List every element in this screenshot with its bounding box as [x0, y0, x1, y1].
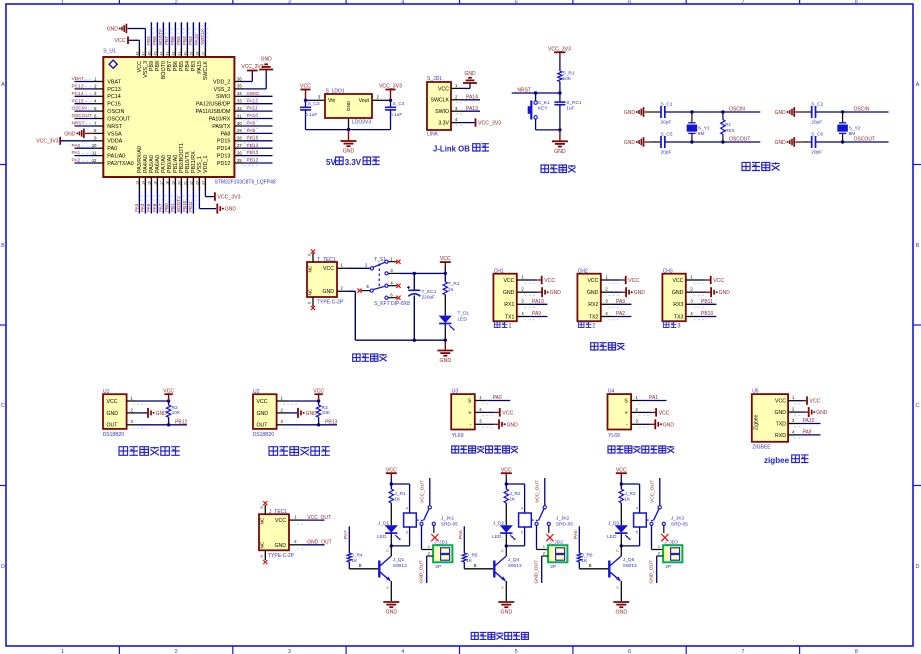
- svg-text:4: 4: [521, 506, 524, 511]
- svg-text:e: e: [387, 585, 390, 590]
- ground GND of power circuit: [437, 340, 453, 364]
- svg-text:PB8: PB8: [152, 36, 157, 45]
- wire net OSCIN to U1 pin 5: [72, 106, 94, 112]
- power GND for S_C5: [624, 137, 661, 147]
- wire net PA0 to U1 pin 10: [72, 143, 94, 149]
- svg-text:37: 37: [201, 52, 205, 56]
- svg-text:47: 47: [141, 52, 145, 56]
- svg-text:43: 43: [165, 52, 169, 56]
- power VCC at U5 pin1: [794, 396, 821, 405]
- wire net SWIO from U1 pin 34: [244, 91, 273, 99]
- MCU U1 STM32F103C8T6 body: [103, 49, 276, 186]
- relay J_JK1 switch lever: [416, 509, 458, 528]
- wire net PA2 to U1 pin 12: [72, 158, 94, 164]
- connector S_JD1 J-Link: [427, 76, 451, 138]
- power GND at U1 pin 23: [199, 190, 236, 214]
- svg-text:VCC_3V3: VCC_3V3: [217, 195, 240, 201]
- svg-text:2: 2: [175, 649, 178, 654]
- svg-text:2: 2: [341, 286, 344, 291]
- label serial port 1: [494, 322, 512, 330]
- svg-text:3.3V: 3.3V: [345, 158, 362, 167]
- svg-text:J_JD1: J_JD1: [434, 539, 448, 545]
- power GND at U1 pin2: [137, 408, 167, 418]
- svg-text:13: 13: [135, 181, 139, 185]
- svg-text:20: 20: [177, 181, 181, 185]
- wire S_C6 to crystal node: [816, 141, 889, 143]
- svg-text:PA10: PA10: [247, 113, 259, 119]
- ground GND of LDO circuit: [341, 130, 357, 155]
- svg-text:S_LDO1: S_LDO1: [326, 89, 345, 95]
- svg-text:10: 10: [92, 143, 97, 148]
- ground GND of relay cell J_JD3: [613, 602, 629, 616]
- S_JD1 pin 3: [451, 106, 462, 111]
- svg-text:J_R2: J_R2: [509, 491, 521, 497]
- U1 bottom pin 19: [171, 177, 175, 190]
- svg-text:PA0: PA0: [72, 143, 81, 149]
- svg-text:J_D1: J_D1: [378, 520, 390, 526]
- svg-text:1: 1: [479, 395, 482, 400]
- svg-text:YL69: YL69: [608, 433, 620, 439]
- wire net PB7 from U1 pin 43: [164, 22, 172, 47]
- svg-text:A: A: [916, 82, 920, 88]
- svg-text:33: 33: [237, 99, 242, 104]
- power GND for S_C6: [775, 137, 812, 147]
- svg-text:GND: GND: [107, 27, 119, 33]
- CH1 pin 4: [517, 311, 529, 317]
- U1 pin 1: [127, 395, 137, 401]
- svg-text:T_D1: T_D1: [458, 311, 470, 317]
- svg-text:RXD: RXD: [775, 433, 786, 439]
- svg-text:J_R3: J_R3: [624, 491, 636, 497]
- U1 right pin 32: [234, 106, 243, 111]
- svg-text:36: 36: [237, 76, 242, 81]
- svg-text:14: 14: [141, 181, 145, 185]
- svg-text:GND: GND: [225, 207, 237, 213]
- power VCC of relay cell J_JD3: [616, 467, 627, 484]
- svg-text:220uF: 220uF: [422, 295, 436, 301]
- svg-text:2: 2: [636, 407, 639, 412]
- crystal S_Y1 8M: [687, 110, 710, 143]
- U1 bottom pin 20: [177, 177, 181, 190]
- U1 bottom pin 15: [147, 177, 151, 190]
- svg-text:PA11: PA11: [247, 106, 258, 112]
- svg-text:GND: GND: [634, 290, 646, 296]
- wire net PA12 from U1 pin 33: [244, 98, 273, 106]
- U1 right pin 36: [234, 76, 243, 81]
- svg-text:38: 38: [195, 52, 199, 56]
- J_TEC1 top no-connect pin: [260, 501, 268, 514]
- wire net PA10 from U1 pin 31: [244, 113, 273, 121]
- svg-text:U3: U3: [452, 389, 459, 395]
- svg-text:PB11: PB11: [188, 201, 193, 212]
- svg-text:SWCLK: SWCLK: [203, 61, 209, 81]
- svg-text:SWIO: SWIO: [435, 109, 449, 115]
- svg-text:7: 7: [94, 121, 97, 126]
- switch T_S1 no-connect stub pin6: [388, 296, 401, 300]
- svg-text:1: 1: [94, 76, 97, 81]
- svg-text:OSCIN: OSCIN: [72, 106, 88, 112]
- svg-text:46: 46: [147, 52, 151, 56]
- U4 pin 1: [631, 395, 643, 401]
- svg-text:PA0: PA0: [493, 395, 502, 401]
- capacitor T_EC1 220uF polarized: [407, 273, 437, 340]
- svg-text:VCC: VCC: [587, 278, 598, 284]
- U1 top pin 42: [171, 47, 175, 57]
- svg-text:2: 2: [94, 84, 97, 89]
- svg-text:T_EC1: T_EC1: [422, 289, 437, 295]
- U5 pin 4: [788, 429, 799, 435]
- svg-text:3: 3: [288, 649, 291, 654]
- U3 pin 3: [475, 419, 487, 425]
- svg-text:PA7: PA7: [343, 530, 349, 539]
- wire net PA10 from U5 TXD: [794, 418, 821, 427]
- svg-text:29: 29: [237, 128, 242, 133]
- wire VCC_OUT to relay common J_JK3: [657, 478, 662, 510]
- svg-text:2: 2: [690, 287, 693, 292]
- svg-text:1: 1: [131, 395, 134, 400]
- svg-text:GND: GND: [257, 411, 269, 417]
- wire net BOOT0 from U1 pin 44: [158, 22, 166, 47]
- net label VCC_OUT (vertical) of J_JD3: [650, 480, 656, 503]
- svg-text:T_TEC1: T_TEC1: [317, 257, 336, 263]
- svg-text:S: S: [468, 398, 472, 404]
- wire net PC13 to U1 pin 2: [72, 84, 94, 90]
- wire S_JD1 pin1 to GND: [462, 83, 470, 88]
- J_TEC1 bottom no-connect pin: [260, 550, 268, 564]
- svg-text:C: C: [501, 548, 504, 553]
- wire net PB12 from U1 pin 25: [244, 158, 273, 166]
- wire S_C2 to crystal node: [816, 111, 889, 113]
- svg-text:20pF: 20pF: [811, 120, 822, 126]
- wire net PC15 to U1 pin 4: [72, 98, 94, 104]
- wire net OSCOUT to U1 pin 6: [72, 113, 94, 119]
- wire net PB10 from U1 pin 21: [182, 190, 190, 214]
- U2 pin 2: [277, 407, 287, 413]
- svg-text:2: 2: [658, 552, 660, 556]
- svg-text:PA1: PA1: [649, 395, 658, 401]
- capacitor S_C1 20pF: [661, 102, 673, 126]
- svg-text:KEY: KEY: [538, 106, 548, 112]
- switch T_S1 no-connect stub pin4: [388, 284, 401, 288]
- svg-text:10K: 10K: [322, 410, 331, 416]
- svg-text:LED: LED: [458, 317, 468, 323]
- svg-text:4: 4: [401, 649, 404, 654]
- power GND at U3 pin3: [482, 419, 518, 429]
- svg-text:NC: NC: [260, 541, 265, 548]
- wire net PA1 from U4 S pin: [639, 395, 667, 404]
- svg-text:PB7: PB7: [164, 36, 169, 45]
- wire VCC node to relay coil J_JK3: [620, 482, 640, 513]
- svg-text:PA9: PA9: [247, 121, 256, 127]
- svg-text:S_U1: S_U1: [103, 49, 116, 55]
- svg-text:2: 2: [294, 539, 297, 544]
- relay coil J_JK2 SRD-05: [519, 513, 532, 527]
- svg-text:PB9: PB9: [146, 36, 151, 45]
- net label GND_OUT (vertical) of J_JD1: [418, 560, 424, 584]
- svg-text:OUT: OUT: [257, 423, 269, 429]
- svg-text:1: 1: [658, 545, 660, 549]
- svg-text:PB5: PB5: [176, 36, 181, 45]
- wire net PB9 from U1 pin 46: [146, 22, 154, 47]
- U2 pin 1: [277, 395, 287, 401]
- svg-text:VCC: VCC: [440, 256, 451, 262]
- net label PA7 (relay input): [343, 530, 349, 539]
- wire LED to coil bottom and transistor J_Q4: [501, 527, 525, 556]
- net label OSCOUT (S_Y2): [854, 137, 875, 143]
- svg-text:GND: GND: [343, 149, 355, 155]
- svg-text:PD13: PD13: [217, 154, 231, 160]
- power VCC_3V3 at U1 pin 36: [241, 64, 263, 82]
- U1 bottom pin 22: [189, 177, 193, 190]
- svg-text:PA3: PA3: [616, 299, 625, 305]
- svg-text:S_JD1: S_JD1: [427, 76, 442, 82]
- svg-text:SRD-05: SRD-05: [556, 522, 573, 528]
- connector CH3 serial port: [662, 268, 685, 321]
- wire net PA1 to U1 pin 11: [72, 150, 94, 156]
- resistor J_R4 1K base: [347, 526, 378, 569]
- svg-text:A: A: [1, 82, 5, 88]
- power GND at U5 pin2: [794, 407, 828, 417]
- svg-text:PB12: PB12: [247, 158, 259, 164]
- svg-text:9: 9: [94, 136, 97, 141]
- svg-text:OSCOUT: OSCOUT: [854, 137, 875, 143]
- U3 pin 2: [475, 407, 487, 413]
- svg-text:18: 18: [165, 181, 169, 185]
- svg-text:8: 8: [94, 128, 97, 133]
- svg-text:J_JK2: J_JK2: [556, 516, 570, 522]
- svg-text:VCC: VCC: [275, 518, 286, 524]
- U1 left pin 9: [94, 136, 104, 141]
- svg-text:GND: GND: [774, 410, 786, 416]
- svg-text:3: 3: [455, 106, 458, 111]
- wire emitter of J_Q4 to GND: [502, 581, 507, 601]
- svg-text:GND: GND: [64, 131, 76, 137]
- svg-text:OSCOUT: OSCOUT: [107, 117, 131, 123]
- svg-text:GND: GND: [775, 140, 787, 146]
- power GND at U2 pin2: [287, 408, 317, 418]
- svg-text:J_R4: J_R4: [351, 552, 363, 558]
- svg-text:1: 1: [792, 395, 795, 400]
- U1 bottom pin 24: [201, 177, 205, 190]
- resistor R2 10K pull-up: [166, 401, 181, 425]
- svg-text:GND: GND: [261, 57, 273, 63]
- wire net PA13 from S_JD1 pin3: [456, 106, 480, 114]
- svg-text:OSCOUT: OSCOUT: [729, 137, 750, 143]
- svg-text:S9013: S9013: [623, 563, 637, 569]
- capacitor S_C6 20pF: [811, 132, 823, 156]
- wire net VBAT to U1 pin 1: [72, 76, 94, 82]
- wire net PB12 from U1 OUT: [133, 419, 188, 428]
- resistor J_R1 1K: [389, 484, 406, 503]
- U1 left pin 3: [94, 91, 104, 96]
- wire S_C5 to crystal node: [665, 141, 761, 143]
- title serial port circuit: [591, 343, 625, 350]
- svg-text:5: 5: [94, 106, 97, 111]
- svg-text:1: 1: [521, 274, 524, 279]
- svg-text:3: 3: [288, 0, 291, 6]
- connector T_TEC1 TYPE-C-2P: [307, 257, 344, 306]
- svg-text:S_C3: S_C3: [308, 101, 320, 107]
- svg-text:S_KFT DIP-8X8: S_KFT DIP-8X8: [374, 301, 410, 307]
- svg-text:D: D: [916, 564, 920, 570]
- svg-text:VCC: VCC: [659, 410, 670, 416]
- svg-text:PC14: PC14: [107, 94, 121, 100]
- svg-text:5: 5: [636, 530, 639, 535]
- ground GND of relay cell J_JD1: [383, 602, 399, 616]
- title crystal circuit: [742, 162, 780, 170]
- connector J_JD2 2P: [548, 539, 567, 570]
- ground GND above J-Link: [463, 71, 477, 83]
- svg-text:B: B: [916, 243, 920, 249]
- wire LDO Vout to VCC_3V3: [372, 95, 392, 103]
- svg-text:OSCIN: OSCIN: [729, 107, 745, 113]
- svg-text:VSSA: VSSA: [107, 131, 122, 137]
- power GND at U1 pin 8 VSSA: [64, 129, 93, 139]
- sensor U1 DS18B20: [103, 389, 127, 438]
- capacitor S_C4 0.1uF: [385, 100, 405, 129]
- power GND at CH3 pin2: [693, 287, 730, 297]
- svg-text:B: B: [359, 563, 362, 568]
- svg-text:J_R1: J_R1: [394, 491, 406, 497]
- label serial port 3: [663, 322, 681, 330]
- svg-text:J_TEC1: J_TEC1: [269, 509, 287, 515]
- svg-text:PB13: PB13: [325, 419, 337, 425]
- svg-text:e: e: [502, 585, 505, 590]
- wire net PB14 from U1 pin 27: [244, 143, 273, 151]
- svg-text:NRST: NRST: [517, 88, 531, 94]
- svg-text:S_R1: S_R1: [563, 71, 575, 77]
- svg-text:4: 4: [94, 99, 97, 104]
- svg-text:S_K1: S_K1: [538, 100, 550, 106]
- svg-text:8: 8: [855, 0, 858, 6]
- svg-text:SRD-05: SRD-05: [671, 522, 688, 528]
- svg-text:2: 2: [543, 552, 545, 556]
- svg-text:4: 4: [521, 311, 524, 316]
- svg-text:PA7: PA7: [158, 203, 163, 212]
- svg-text:27: 27: [237, 143, 242, 148]
- svg-text:5V: 5V: [326, 158, 336, 167]
- svg-text:0: 0: [308, 302, 312, 304]
- svg-text:24: 24: [201, 181, 205, 185]
- svg-text:ZIGBEE: ZIGBEE: [752, 444, 771, 450]
- svg-text:PA2: PA2: [72, 158, 81, 164]
- svg-text:28: 28: [237, 136, 242, 141]
- relay J_JK2 unused throw no-connect: [546, 525, 553, 541]
- wire GND_OUT from J_JD3 pin2: [657, 552, 663, 583]
- wire VCC node to relay coil J_JK1: [390, 482, 410, 513]
- U1 bottom pin 21: [183, 177, 187, 190]
- svg-text:0.1uF: 0.1uF: [305, 112, 317, 118]
- net label PA5 (relay input): [573, 530, 579, 539]
- U1 pin 2: [127, 407, 137, 413]
- svg-text:J_Q1: J_Q1: [393, 557, 405, 563]
- CH3 pin 1: [686, 274, 698, 280]
- svg-text:CH2: CH2: [578, 268, 588, 274]
- svg-text:1: 1: [508, 324, 512, 330]
- net label GND_OUT (vertical) of J_JD3: [648, 560, 654, 584]
- wire emitter of J_Q5 to GND: [617, 581, 622, 601]
- power VCC at CH2 pin1: [608, 276, 639, 284]
- wire net PB10 from CH3 pin4: [693, 311, 716, 320]
- svg-text:STM32F103C8T6_LQFP48: STM32F103C8T6_LQFP48: [215, 180, 276, 186]
- svg-text:2: 2: [592, 324, 596, 330]
- svg-text:+: +: [625, 410, 628, 416]
- svg-text:GND: GND: [775, 110, 787, 116]
- ground GND of relay cell J_JD2: [498, 602, 514, 616]
- svg-text:GND: GND: [663, 422, 675, 428]
- svg-text:Vin: Vin: [328, 98, 336, 104]
- svg-text:2P: 2P: [665, 564, 671, 570]
- svg-text:-: -: [470, 422, 472, 428]
- svg-text:PA2: PA2: [616, 311, 625, 317]
- svg-text:PA3: PA3: [134, 203, 139, 212]
- svg-text:PB15: PB15: [247, 135, 259, 141]
- svg-text:31: 31: [237, 113, 242, 118]
- svg-text:R2: R2: [172, 405, 178, 411]
- power VCC_3V3 at LDO output: [379, 84, 402, 101]
- svg-text:S_Y2: S_Y2: [849, 126, 861, 132]
- svg-text:2: 2: [131, 407, 134, 412]
- net label PA6 (relay input): [458, 530, 464, 539]
- svg-text:2: 2: [175, 0, 178, 6]
- svg-text:3: 3: [605, 299, 608, 304]
- svg-text:VCC_3V3: VCC_3V3: [478, 121, 501, 127]
- svg-text:VCC: VCC: [323, 266, 334, 272]
- svg-text:J_D3: J_D3: [608, 520, 620, 526]
- svg-text:LDO3V3: LDO3V3: [352, 120, 371, 126]
- svg-text:VCC: VCC: [775, 399, 786, 405]
- svg-text:GND: GND: [501, 610, 513, 616]
- U5 pin 1: [788, 395, 799, 401]
- svg-text:2: 2: [377, 95, 380, 100]
- wire net PB3 from U1 pin 39: [188, 22, 196, 47]
- title J-Link OB interface: [433, 144, 489, 154]
- wire emitter of J_Q1 to GND: [387, 581, 392, 601]
- resistor T_R1 1K: [443, 273, 460, 294]
- power VCC_3V3 at U1 pin 9 VDDA: [36, 137, 93, 145]
- svg-text:PC15: PC15: [107, 102, 121, 108]
- wire T_TEC1 VCC to switch: [337, 262, 370, 268]
- wire net PA3 from CH2 pin3: [608, 299, 631, 308]
- wire net PA10 from CH1 pin3: [524, 299, 547, 308]
- svg-text:48: 48: [135, 52, 139, 56]
- svg-text:1K: 1K: [394, 496, 401, 502]
- power VCC_3V3 at U1 pin 24: [205, 190, 240, 201]
- svg-text:VBAT: VBAT: [107, 79, 121, 85]
- svg-text:VCC_OUT: VCC_OUT: [535, 480, 541, 503]
- U1 top pin 37: [201, 47, 205, 57]
- CH3 pin 3: [686, 299, 698, 305]
- svg-text:VCC: VCC: [628, 278, 639, 284]
- svg-text:Vout: Vout: [359, 98, 370, 104]
- U4 pin 3: [631, 419, 643, 425]
- svg-text:45: 45: [153, 52, 157, 56]
- title 5V to 3.3V circuit: [326, 157, 380, 167]
- svg-text:PB6: PB6: [170, 36, 175, 45]
- svg-text:NC: NC: [308, 288, 313, 295]
- wire S_C1 to crystal node: [665, 111, 761, 113]
- svg-text:3: 3: [94, 91, 97, 96]
- CH1 pin 2: [517, 287, 529, 293]
- relay J_JK1 unused throw no-connect: [431, 525, 438, 541]
- transistor J_Q5 S9013 NPN: [609, 556, 637, 581]
- svg-text:1: 1: [605, 274, 608, 279]
- svg-text:GND: GND: [550, 290, 562, 296]
- wire VCC_OUT to relay common J_JK2: [542, 478, 547, 510]
- CH2 pin 1: [601, 274, 613, 280]
- svg-text:2: 2: [455, 94, 458, 99]
- svg-text:CH1: CH1: [494, 268, 504, 274]
